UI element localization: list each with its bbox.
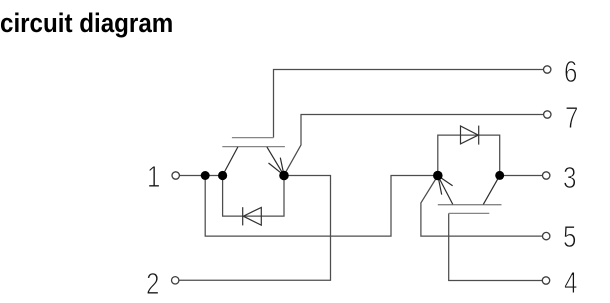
terminal 1 circle (172, 172, 179, 179)
node A junction dot (201, 171, 210, 180)
label 7 (565, 102, 578, 133)
wire gate Q1 to pin 6 (274, 70, 544, 138)
node B junction dot (218, 171, 227, 180)
Q1 emitter arrowhead (269, 158, 285, 176)
node D junction dot (433, 171, 443, 181)
Q2 gate bar (449, 212, 490, 214)
terminal 6 circle (544, 66, 551, 73)
label 2 (146, 268, 159, 299)
transistor Q2 (right IGBT) (438, 176, 502, 214)
diode D1 (anti-parallel, left) (243, 207, 262, 225)
D2 cathode bar (478, 126, 480, 145)
wire diode D1 loop (223, 176, 284, 217)
terminal 3 circle (543, 172, 550, 179)
node E junction dot (495, 171, 504, 180)
Q1 emitter slant with arrow (267, 147, 284, 176)
wire node C right, down, to pin 2 (179, 176, 331, 281)
wire aux emitter Q2 to pin 5 (421, 176, 543, 236)
Q2 collector slant (483, 176, 499, 205)
wire diode D2 loop (438, 135, 500, 175)
Q2 emitter arrowhead (438, 176, 453, 195)
terminal 2 circle (172, 277, 179, 284)
title: circuit diagram (0, 9, 173, 37)
wire aux emitter Q1 to pin 7 (284, 115, 543, 175)
node C junction dot (279, 171, 289, 181)
wire node E to pin 3 (500, 175, 543, 177)
Q2 emitter slant with arrow (438, 176, 453, 205)
label 5 (563, 221, 576, 252)
label 3 (563, 162, 576, 193)
label 6 (564, 56, 577, 87)
D1 triangle (243, 207, 261, 225)
label 4 (564, 267, 577, 298)
Q2 body bar (438, 204, 502, 206)
terminal 4 circle (542, 277, 549, 284)
Q1 body bar (222, 146, 285, 148)
wire gate Q2 to pin 4 (449, 213, 543, 280)
wire node A down, across, up to node D (205, 176, 438, 237)
transistor Q1 (left IGBT) (222, 138, 285, 176)
wire pin1 to node B (179, 175, 222, 177)
label 1 (147, 161, 160, 192)
diode D2 (anti-parallel, right) (461, 126, 479, 145)
D1 cathode bar (242, 207, 244, 225)
terminal 7 circle (544, 111, 551, 118)
terminal 5 circle (543, 232, 550, 239)
D2 triangle (461, 126, 479, 144)
Q1 gate bar (232, 137, 274, 139)
Q1 collector slant (223, 147, 238, 176)
